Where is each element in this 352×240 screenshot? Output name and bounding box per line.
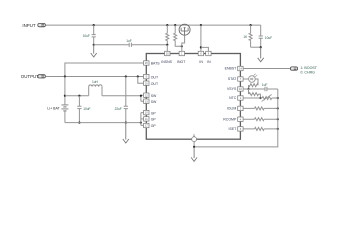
node junction RCOMP/gnd bus <box>277 118 279 120</box>
node junction C4 bottom <box>78 122 80 124</box>
wire ENBST <box>243 68 290 70</box>
pin 4 RCOMP right <box>223 117 243 121</box>
pin 1 INGT top <box>177 51 186 64</box>
node junction gate <box>181 45 183 47</box>
wire to INSNS pin <box>166 45 168 52</box>
svg-text:INGT: INGT <box>177 60 186 64</box>
svg-text:Li+ BAT: Li+ BAT <box>47 106 60 110</box>
node junction battery/output <box>64 75 66 77</box>
svg-text:1uF: 1uF <box>262 83 268 87</box>
svg-text:ENBST: ENBST <box>225 67 238 71</box>
wire IN2 branch <box>201 47 209 51</box>
wire bottom battery line <box>65 122 141 124</box>
pin 17 GP left <box>144 123 157 128</box>
svg-text:BATS: BATS <box>151 62 161 66</box>
svg-text:IN: IN <box>207 60 211 64</box>
node junction NTC <box>259 97 261 99</box>
resistor R3 1K <box>249 25 252 47</box>
pin 9 OUT left <box>144 74 159 79</box>
svg-text:1: BOOST: 1: BOOST <box>300 66 317 70</box>
wire SW bus <box>141 95 144 101</box>
pin 14 ENBST right <box>225 66 243 70</box>
svg-text:RCOMP: RCOMP <box>223 117 237 121</box>
node junction IN branch <box>200 46 202 48</box>
pin 20 INSNS top <box>161 51 172 64</box>
svg-text:10uF: 10uF <box>265 36 272 40</box>
node junction C3 bottom <box>260 46 262 48</box>
resistor R8 ISET <box>255 127 265 130</box>
node junction C5 bottom <box>125 122 127 124</box>
node junction G pad/gnd bus <box>193 146 195 148</box>
svg-text:22uF: 22uF <box>115 107 122 111</box>
ground GND1 under C1 <box>91 45 97 57</box>
connector J3 ENBST plug <box>290 67 297 70</box>
capacitor C5 22uF output <box>124 77 128 123</box>
pin 16 OUT left <box>144 81 159 86</box>
inductor L1 1uH <box>89 85 102 96</box>
node junction NTC/gnd bus <box>277 97 279 99</box>
pin 12 SW left <box>144 93 157 98</box>
wire GP bus <box>141 113 144 126</box>
pin 3 ISET right <box>229 127 244 131</box>
svg-text:INSNS: INSNS <box>161 60 172 64</box>
wire STAT <box>243 78 249 80</box>
wire R4 to VSYS <box>248 85 250 89</box>
ground GND3 under C5 <box>123 123 129 143</box>
pin 2 IOLIM right <box>227 106 243 110</box>
pin 10 GP left <box>144 110 157 115</box>
wire LED to R4 <box>255 79 258 85</box>
resistor R7 RCOMP <box>255 118 265 121</box>
node junction battery/inductor line <box>64 95 66 97</box>
node junction 22uF top <box>125 75 127 77</box>
wire inductor line <box>65 95 141 97</box>
svg-text:0: CHRG: 0: CHRG <box>300 71 315 75</box>
thermistor RT1 NTC <box>260 94 272 101</box>
node junction rail/R3 <box>250 24 252 26</box>
svg-text:GP: GP <box>151 111 157 115</box>
pin 1 NTC right <box>229 96 243 100</box>
node junction rail/Cin <box>93 24 95 26</box>
svg-text:NTC: NTC <box>229 96 237 100</box>
node junction OUT bus <box>137 75 139 77</box>
capacitor C3 10uF right <box>259 25 263 47</box>
wire NTC <box>243 97 278 99</box>
pin 10 VSYS right <box>227 87 243 91</box>
pin 9 IN top <box>206 51 211 64</box>
node junction rail/R1 <box>166 24 168 26</box>
ground GND4 bottom <box>191 147 197 162</box>
wire G pad drop <box>193 142 195 147</box>
node junction rail/IN <box>200 24 202 26</box>
wire IN pins drop <box>200 25 202 51</box>
svg-text:GP: GP <box>151 124 157 128</box>
capacitor C4 10uF battery <box>77 96 81 123</box>
resistor R1 INSNS pullup <box>166 25 169 45</box>
node junction SW bus corner <box>140 95 142 97</box>
wire sense line <box>94 44 168 46</box>
pin 11 GP left <box>144 117 157 122</box>
pin 13 SW left <box>144 99 157 104</box>
node junction R1/sense <box>166 44 168 46</box>
resistor R5 NTC bias <box>249 89 261 98</box>
pin 7 STAT right <box>228 77 243 81</box>
svg-text:ISET: ISET <box>229 127 238 131</box>
svg-text:OUT: OUT <box>151 82 159 86</box>
node junction GP bus/bottom line <box>140 122 142 124</box>
wire RCOMP <box>243 118 278 120</box>
node junction C4 top <box>78 95 80 97</box>
resistor R4 LED <box>248 84 258 87</box>
wire to INGT pin <box>181 46 183 51</box>
ground GND2 top right <box>258 47 264 62</box>
svg-text:IOLIM: IOLIM <box>227 107 237 111</box>
node junction IOLIM/gnd bus <box>277 107 279 109</box>
transistor Q1 input PFET <box>179 24 190 46</box>
node junction C1 bottom <box>93 44 95 46</box>
svg-text:IN: IN <box>199 60 203 64</box>
node junction VSYS/R4 <box>247 88 249 90</box>
wire ISET <box>243 128 278 130</box>
wire BATS sense <box>65 63 144 77</box>
svg-text:VSYS: VSYS <box>227 87 237 91</box>
node junction rail/R2 <box>174 24 176 26</box>
capacitor C2 1uF sense <box>129 43 131 47</box>
svg-text:STAT: STAT <box>228 77 237 81</box>
svg-text:10uF: 10uF <box>83 34 90 38</box>
diode D1 STAT LED <box>249 74 258 83</box>
svg-text:OUT: OUT <box>151 75 159 79</box>
svg-text:SW: SW <box>151 100 157 104</box>
svg-text:SW: SW <box>151 94 157 98</box>
svg-text:1uF: 1uF <box>126 39 132 43</box>
svg-text:OUTPUT: OUTPUT <box>21 74 39 79</box>
op-amp U1 charger IC body <box>146 54 240 140</box>
capacitor C6 1uF VSYS <box>265 87 267 91</box>
battery BT1 Li+ BAT <box>61 77 68 123</box>
svg-text:1uH: 1uH <box>92 80 99 84</box>
node junction ISET/gnd bus <box>277 128 279 130</box>
wire ground bus right <box>194 89 278 147</box>
wire R3/C3 bottom tie <box>251 46 261 48</box>
wire input rail <box>46 24 261 26</box>
wire OUT2 bus <box>138 77 144 84</box>
connector J2 OUTPUT plug <box>38 75 46 78</box>
svg-text:10uF: 10uF <box>83 107 90 111</box>
wire VSYS <box>243 88 278 90</box>
resistor R6 IOLIM <box>255 107 265 110</box>
pin G thermal pad bottom <box>192 133 197 141</box>
connector J1 INPUT plug <box>38 24 46 27</box>
pin 8 IN top <box>198 51 203 64</box>
resistor R2 gate pullup <box>174 25 182 46</box>
svg-text:INPUT: INPUT <box>22 23 35 28</box>
wire OUTPUT line <box>46 76 144 78</box>
wire IOLIM <box>243 107 278 109</box>
capacitor C1 10uF input <box>92 25 96 45</box>
pin 15 BATS left <box>144 61 161 66</box>
svg-text:GP: GP <box>151 118 157 122</box>
